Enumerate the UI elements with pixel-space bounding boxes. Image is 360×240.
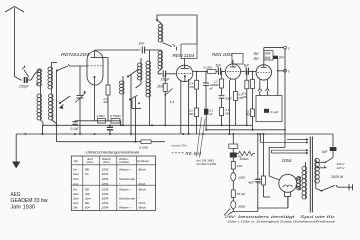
svg-text:1nF: 1nF xyxy=(139,42,146,46)
pointer line 2 xyxy=(200,119,206,158)
tube V2 legs xyxy=(181,79,189,134)
capacitor C15 5nF xyxy=(322,134,336,158)
junction xyxy=(202,133,204,135)
svg-text:1000Ω: 1000Ω xyxy=(240,157,250,161)
svg-text:Blech: Blech xyxy=(139,188,147,192)
svg-text:1054: 1054 xyxy=(102,197,109,201)
label REN1004 xyxy=(212,52,233,57)
coil L2 xyxy=(48,63,53,95)
capacitor C13 5uF xyxy=(230,153,242,159)
svg-text:0,4: 0,4 xyxy=(190,82,194,86)
svg-text:300Ω: 300Ω xyxy=(238,205,246,209)
tube V1 RENS1204 envelope xyxy=(87,51,103,85)
resistor R3 0.75M xyxy=(110,114,121,123)
capacitor C7 5uF xyxy=(216,64,226,75)
label REN1104 xyxy=(173,53,195,58)
junction xyxy=(246,124,248,126)
svg-text:1054: 1054 xyxy=(102,182,109,186)
resistor R11 1.4M xyxy=(246,71,255,130)
table header xyxy=(74,157,150,164)
junction xyxy=(79,133,81,135)
svg-text:5µF: 5µF xyxy=(216,64,223,68)
junction xyxy=(109,133,111,135)
resistor R12 0.1M bus xyxy=(139,140,151,150)
footnote line1 xyxy=(222,215,336,219)
svg-text:1054: 1054 xyxy=(282,158,292,163)
svg-text:1w: 1w xyxy=(73,167,78,171)
label 150V xyxy=(337,166,346,170)
wire fil drop xyxy=(260,134,271,153)
svg-text:Typ: Typ xyxy=(74,159,79,163)
switch S6 reaction xyxy=(163,43,177,51)
junction xyxy=(74,133,76,135)
junction xyxy=(94,133,96,135)
svg-text:1,4: 1,4 xyxy=(170,100,175,104)
capacitor C3 1nF xyxy=(139,42,153,54)
capacitor C1 250pF xyxy=(18,77,31,89)
filament wires 2 xyxy=(272,149,309,154)
label RE RE xyxy=(254,52,260,61)
svg-text:MΩ: MΩ xyxy=(190,85,194,89)
screen box V2 xyxy=(181,44,197,59)
svg-text:1054: 1054 xyxy=(102,192,109,196)
coil L1 xyxy=(37,69,42,86)
svg-text:″: ″ xyxy=(119,172,121,176)
svg-text:1cw: 1cw xyxy=(73,182,79,186)
svg-text:84,5Ω: 84,5Ω xyxy=(237,192,246,196)
coil T1 primary xyxy=(137,58,142,84)
capacitor C16 blob xyxy=(204,108,214,129)
svg-text:röhre: röhre xyxy=(103,160,110,164)
junction xyxy=(229,133,231,135)
svg-text:1054: 1054 xyxy=(102,201,109,205)
svg-text:1MΩ: 1MΩ xyxy=(157,84,165,88)
svg-text:30L: 30L xyxy=(85,192,90,196)
svg-text:″: ″ xyxy=(139,177,141,181)
capacitor C5 0.1uF xyxy=(107,124,113,134)
svg-text:RE: RE xyxy=(254,57,260,61)
svg-text:0,1: 0,1 xyxy=(189,109,193,113)
coil L7 detector grid xyxy=(158,50,163,69)
svg-text:RE: RE xyxy=(254,52,260,56)
ground arrow marker xyxy=(25,133,27,135)
resistor R1 0.5M xyxy=(99,58,111,122)
voltage selector xyxy=(316,158,333,168)
tube V3 anode xyxy=(230,60,236,67)
bus segment D xyxy=(206,129,285,131)
note nur bei 27m xyxy=(172,143,188,147)
coil L4 xyxy=(48,94,53,120)
switch S2 waveband top xyxy=(52,63,71,72)
bus line A xyxy=(43,124,253,126)
wire feedback loop xyxy=(157,15,197,44)
wire L1-L3 xyxy=(36,83,40,94)
svg-text:c: c xyxy=(288,46,290,50)
resistor R14 1000 xyxy=(237,151,255,161)
svg-text:2fw: 2fw xyxy=(72,206,79,210)
wire B+ vertical xyxy=(284,49,286,148)
svg-text:REN 1004: REN 1004 xyxy=(212,52,233,57)
svg-text:bei 604 0,1MΩ: bei 604 0,1MΩ xyxy=(197,162,217,166)
svg-text:MΩ: MΩ xyxy=(189,112,193,116)
wire V1 anode up xyxy=(95,50,141,51)
svg-text:″: ″ xyxy=(119,201,121,205)
tube V4 grid dashes xyxy=(258,71,271,73)
note RE604 dashes xyxy=(172,151,202,156)
junction xyxy=(188,133,190,135)
resistor R8 2M xyxy=(214,71,224,95)
svg-text:RENS1204: RENS1204 xyxy=(61,52,89,57)
svg-text:Schiebende: Schiebende xyxy=(119,177,135,181)
svg-text:250pF: 250pF xyxy=(18,85,29,89)
title Jahr xyxy=(11,204,36,210)
wire cathode rail xyxy=(75,121,121,126)
svg-text:125 V: 125 V xyxy=(337,166,346,170)
trimmer capacitor C2 xyxy=(76,66,87,134)
filament wires 1 xyxy=(260,138,308,144)
output box xyxy=(256,96,282,122)
coil L5 choke xyxy=(119,76,124,126)
wire coupling 2 xyxy=(241,70,246,72)
svg-text:25/26 W: 25/26 W xyxy=(330,175,344,179)
svg-text:604: 604 xyxy=(265,56,271,60)
svg-text:c: c xyxy=(288,70,290,74)
capacitor C10 5uF xyxy=(244,64,257,75)
label 230V xyxy=(336,162,346,166)
junction xyxy=(232,133,234,135)
capacitor C8 100pF xyxy=(203,71,215,109)
tube V3 legs xyxy=(230,79,236,135)
tube V5 1054 xyxy=(279,174,297,192)
type box V4 xyxy=(264,51,273,61)
junction xyxy=(56,124,58,126)
wire grid line tube V1 xyxy=(71,65,88,67)
svg-text:AEG: AEG xyxy=(11,192,21,198)
table cells xyxy=(72,167,146,209)
title AEG xyxy=(11,192,21,198)
transformer core xyxy=(310,137,312,213)
resistor R17 845 xyxy=(231,181,245,197)
switch S1 antenna xyxy=(23,66,30,78)
svg-text:RE: RE xyxy=(85,188,90,192)
svg-text:auer: auer xyxy=(85,197,92,201)
svg-text:MΩ: MΩ xyxy=(257,180,262,184)
svg-text:″: ″ xyxy=(139,172,141,176)
svg-text:1054: 1054 xyxy=(102,172,109,176)
switch S5 xyxy=(129,84,141,142)
resistor R18 300 xyxy=(231,198,246,210)
mains switch xyxy=(316,183,353,192)
rectifier anode wire xyxy=(269,148,285,181)
screen box V3 xyxy=(232,54,243,65)
svg-text:Unterscheidungsmerkmale: Unterscheidungsmerkmale xyxy=(86,150,140,154)
title GEADEM xyxy=(11,198,49,204)
resistor R9 0.4M xyxy=(234,92,244,126)
node B+ node xyxy=(284,129,286,131)
coil T1 secondary xyxy=(146,50,151,126)
ground symbol xyxy=(12,134,20,169)
bus line C xyxy=(57,141,166,143)
resistor R13 xyxy=(229,144,238,153)
resistor R10 0.3M xyxy=(243,71,249,126)
svg-text:0,1: 0,1 xyxy=(209,108,213,112)
tube V2 anode xyxy=(181,59,190,69)
svg-text:304: 304 xyxy=(265,52,271,56)
label 1,4 xyxy=(170,100,175,104)
svg-text:röhre: röhre xyxy=(86,160,93,164)
tube V1 cathode xyxy=(94,76,96,85)
svg-text:MΩ: MΩ xyxy=(243,95,247,99)
svg-text:20µF: 20µF xyxy=(224,97,232,101)
svg-text:2bw: 2bw xyxy=(72,197,79,201)
svg-text:µF: µF xyxy=(209,112,213,116)
junction xyxy=(221,124,223,126)
note bei 134 xyxy=(197,158,215,162)
primary winding xyxy=(315,159,320,184)
wire rect bottom xyxy=(258,197,288,209)
capacitor C4 0.1uF xyxy=(71,121,80,131)
switch S3 waveband bottom xyxy=(59,96,70,108)
svg-text:″: ″ xyxy=(119,192,121,196)
resistor R15 145 xyxy=(231,158,243,170)
junction xyxy=(120,124,122,126)
capacitor C12 0.1uF xyxy=(264,109,278,114)
switch S7 xyxy=(164,89,172,126)
svg-text:604: 604 xyxy=(85,206,90,210)
resistor R19 quarterM xyxy=(257,134,271,197)
junction xyxy=(257,133,259,135)
svg-text:14Ω: 14Ω xyxy=(237,164,243,168)
junction xyxy=(130,133,132,135)
wire coupling 1 xyxy=(193,70,208,72)
svg-text:1aw: 1aw xyxy=(73,172,79,176)
capacitor C6 150pF xyxy=(158,69,176,82)
HV winding xyxy=(302,162,307,199)
wire L3 bottom to bus xyxy=(41,120,44,135)
svg-text:MΩ: MΩ xyxy=(246,113,250,117)
svg-text:RE 604: RE 604 xyxy=(186,151,202,156)
tube V1 anode xyxy=(91,51,99,58)
tube V4 anode wire xyxy=(264,48,284,65)
svg-text:1503: 1503 xyxy=(102,188,109,192)
svg-text:MΩ: MΩ xyxy=(214,83,219,87)
junction xyxy=(151,124,153,126)
label watts xyxy=(330,175,344,179)
wire cathode V1 down xyxy=(94,85,96,121)
resistor R7 0.1M xyxy=(204,66,218,74)
switch S4 xyxy=(127,70,138,135)
wire divider to rect xyxy=(233,208,257,212)
tube V4 heater legs xyxy=(258,79,270,95)
svg-text:Preß: Preß xyxy=(139,182,146,186)
svg-text:RE: RE xyxy=(85,167,90,171)
wire anode link to coil L6 xyxy=(152,49,162,51)
resistor R6b xyxy=(189,89,199,134)
svg-text:0,75MΩ: 0,75MΩ xyxy=(110,114,121,118)
svg-text:″: ″ xyxy=(139,197,141,201)
junction xyxy=(135,141,137,143)
table title xyxy=(86,150,140,154)
capacitor C9 20uF xyxy=(219,96,232,108)
svg-text:100Ω: 100Ω xyxy=(238,176,246,180)
svg-text:2aw: 2aw xyxy=(72,192,79,196)
svg-text:″: ″ xyxy=(139,192,141,196)
svg-text:1bw: 1bw xyxy=(73,177,79,181)
coil L6 reaction xyxy=(157,20,163,42)
junction xyxy=(182,133,184,135)
rect filament winding xyxy=(296,177,301,191)
svg-text:1054: 1054 xyxy=(102,177,109,181)
footnote line2 xyxy=(227,219,335,223)
svg-text:0,1MΩ: 0,1MΩ xyxy=(139,146,149,150)
bus line B ground xyxy=(16,133,333,135)
svg-text:MΩ: MΩ xyxy=(104,100,109,104)
tube V3 REN1004 xyxy=(225,64,240,79)
tube V3 grid dashes xyxy=(227,71,239,73)
svg-text:Jahr 1930: Jahr 1930 xyxy=(11,204,36,210)
rectifier cathode legs xyxy=(285,192,291,208)
svg-text:Blech: Blech xyxy=(139,167,147,171)
junction xyxy=(205,129,207,131)
junction xyxy=(263,133,265,135)
svg-text:2nF: 2nF xyxy=(278,56,285,60)
junction xyxy=(259,133,261,135)
svg-text:Preß: Preß xyxy=(139,201,146,205)
svg-text:0,4: 0,4 xyxy=(243,92,247,96)
tube V2 grid dashes xyxy=(178,72,191,74)
svg-text:0,1µF: 0,1µF xyxy=(71,127,80,131)
junction xyxy=(164,124,166,126)
svg-text:110w + 220w m. Schwingtisch Zu: 110w + 220w m. Schwingtisch Zusatz (Scha… xyxy=(227,219,335,223)
note bei 604 xyxy=(197,162,217,166)
label RENS1204 xyxy=(61,52,89,57)
svg-text:2W: besonders benötigt Spul: 2W: besonders benötigt Spul wie für xyxy=(222,215,336,219)
svg-text:5nF: 5nF xyxy=(322,150,328,154)
junction xyxy=(252,129,254,131)
svg-text:0,1MΩ: 0,1MΩ xyxy=(204,66,213,70)
terminal c1 xyxy=(284,46,290,50)
tube V5 filament xyxy=(283,185,292,187)
resistor R4 1M xyxy=(157,74,167,95)
label 1054 xyxy=(282,158,292,163)
svg-text:5µF: 5µF xyxy=(244,64,251,68)
divider bottom xyxy=(224,209,233,216)
tube V1 grid xyxy=(88,65,103,67)
svg-text:4µF: 4µF xyxy=(249,181,256,185)
svg-text:nur bei 27m: nur bei 27m xyxy=(172,143,188,147)
pointer line 1 xyxy=(197,117,202,157)
svg-text:1054: 1054 xyxy=(102,206,109,210)
svg-text:Gehäuse: Gehäuse xyxy=(137,159,149,163)
wire cap to coil L1 xyxy=(31,69,41,80)
capacitor C14 4uF xyxy=(249,134,261,208)
terminal c2 xyxy=(277,69,290,73)
junction xyxy=(122,124,124,126)
resistor R6a grid leak xyxy=(190,71,199,90)
coil L3 xyxy=(37,94,42,120)
tube V4 anode bar xyxy=(261,65,267,68)
svg-text:0,1µF: 0,1µF xyxy=(271,110,279,114)
svg-text:Walzen –: Walzen – xyxy=(119,188,132,192)
svg-text:Schiebende: Schiebende xyxy=(119,197,135,201)
svg-text:Blech: Blech xyxy=(139,206,147,210)
wire L4 bottom to bus2 xyxy=(52,71,57,142)
svg-text:Uk: Uk xyxy=(85,172,89,176)
svg-text:2w: 2w xyxy=(72,188,78,192)
plug pins xyxy=(349,184,353,190)
resistor R16 100 xyxy=(231,169,246,181)
svg-text:schalter: schalter xyxy=(119,160,130,164)
svg-text:pF: pF xyxy=(209,86,214,90)
capacitor C11 2nF xyxy=(273,56,285,96)
svg-text:0,1: 0,1 xyxy=(246,109,250,113)
resistor R20 0.5M xyxy=(220,107,230,125)
svg-text:1,0kΩ: 1,0kΩ xyxy=(97,114,106,118)
tube V2 REN1104 xyxy=(176,65,192,81)
wire antenna to coupling cap xyxy=(15,77,23,81)
tube V4 RE304 xyxy=(256,65,271,80)
svg-text:GEADEM 33 bw: GEADEM 33 bw xyxy=(11,198,49,204)
node loop xyxy=(156,19,158,21)
svg-text:REN 1104: REN 1104 xyxy=(173,53,195,58)
svg-text:Walzen –: Walzen – xyxy=(119,167,132,171)
svg-text:1503: 1503 xyxy=(102,167,109,171)
antenna xyxy=(5,7,24,77)
resistor R2 1.0k xyxy=(97,114,106,123)
divider feed xyxy=(232,134,234,144)
svg-text:RE: RE xyxy=(85,201,90,205)
svg-text:2cw: 2cw xyxy=(72,201,79,205)
table grid xyxy=(71,156,155,211)
tube V2 cathode xyxy=(184,75,186,81)
svg-text:Walzen –: Walzen – xyxy=(119,206,132,210)
